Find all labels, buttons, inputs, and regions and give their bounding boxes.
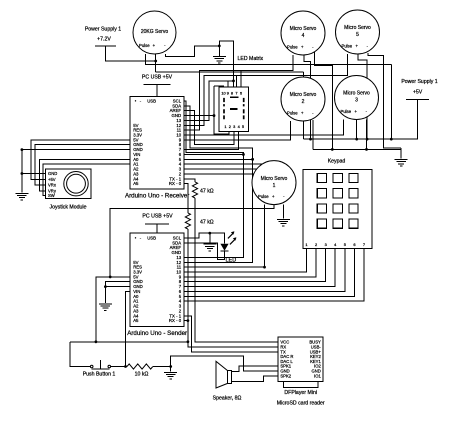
wire: servo1 - pin to ground G4 bbox=[282, 205, 284, 219]
LED matrix seven segment glyph bbox=[230, 96, 238, 98]
micro servo M6 (servo 1) bbox=[252, 161, 296, 205]
svg-text:PC USB +5V: PC USB +5V bbox=[142, 214, 173, 220]
wire: sender TX to DFPlayer TX bbox=[184, 316, 278, 352]
wire: R2 drop to DFPlayer RX bbox=[188, 229, 278, 347]
wire: sender 11 bundle line bbox=[184, 266, 264, 268]
wire: sender 5V row left to bottom bus bbox=[96, 277, 130, 342]
ground G2 below joystick wires bbox=[15, 192, 28, 194]
svg-text:4: 4 bbox=[302, 33, 305, 39]
wire: push button right to resistor R3 bbox=[111, 366, 127, 368]
svg-text:SPK2: SPK2 bbox=[280, 373, 291, 378]
svg-text:3: 3 bbox=[355, 98, 358, 104]
micro servo M4 bbox=[281, 11, 325, 55]
ground G1 near 20KG servo bbox=[218, 46, 220, 56]
svg-text:Pulse: Pulse bbox=[258, 194, 269, 199]
svg-text:VRx: VRx bbox=[48, 183, 57, 188]
wire: receiver TX-1 to resistor R1 bbox=[184, 179, 195, 182]
svg-text:USB: USB bbox=[147, 99, 156, 104]
ground G5 below-left of sender bbox=[99, 303, 112, 305]
ground G4 below servo1 bbox=[277, 218, 290, 220]
resistor R3 10k bbox=[127, 364, 153, 369]
wire: receiver 13 to LED matrix pin 9 bbox=[184, 81, 233, 121]
wire: sender GND2 row to ground G5 bbox=[105, 286, 130, 288]
svg-text:9: 9 bbox=[227, 91, 229, 96]
svg-text:3: 3 bbox=[233, 124, 235, 129]
wire: receiver RX-0 to resistor R2 bbox=[184, 184, 188, 213]
wire: right ground bus y=149.4 bbox=[313, 148, 401, 150]
svg-text:RX - 0: RX - 0 bbox=[169, 181, 182, 186]
svg-text:Pulse: Pulse bbox=[139, 43, 150, 48]
wire: servo2 - pin to ground bus bbox=[312, 120, 314, 149]
wire: receiver SDA staircase to sender row 9 bbox=[184, 106, 253, 262]
svg-text:6: 6 bbox=[240, 91, 242, 96]
svg-text:Micro Servo: Micro Servo bbox=[343, 91, 370, 97]
wire: sender RX stub to R2 drop bbox=[184, 320, 188, 322]
resistor R2 47k bbox=[185, 213, 190, 229]
wire: joystick GND to receiver GND and ground G2 bbox=[22, 173, 46, 175]
wire: R1 drop to DFPlayer VCC bbox=[195, 198, 278, 342]
wire: servo4 - pin to ground bus bbox=[315, 52, 333, 149]
wire: joystick VRx to receiver GND row bbox=[35, 145, 130, 186]
wire: joystick VRy to receiver A0 bbox=[40, 159, 131, 191]
wire: bottom bus y=341.8 bbox=[70, 341, 188, 343]
ground G7 after R3 bbox=[170, 367, 172, 372]
wire: servo4 + pin to +5V bus bbox=[304, 55, 311, 139]
wire: LED cathode to sender SDA bbox=[184, 243, 224, 260]
svg-text:Speaker, 8Ω: Speaker, 8Ω bbox=[213, 396, 242, 402]
wire: receiver 3 to servo1 circle edge bbox=[184, 168, 263, 170]
svg-text:PC USB +5V: PC USB +5V bbox=[142, 75, 173, 81]
power supply 1 +7.2V symbol bbox=[95, 45, 116, 47]
svg-text:8: 8 bbox=[231, 91, 233, 96]
svg-text:2: 2 bbox=[302, 99, 305, 105]
LED arrows bbox=[228, 232, 236, 244]
wire: joystick SW to receiver A1 bbox=[43, 164, 130, 195]
svg-text:A5: A5 bbox=[133, 318, 139, 323]
svg-text:Joystick Module: Joystick Module bbox=[50, 205, 87, 211]
svg-text:+5V: +5V bbox=[48, 177, 56, 182]
PC USB +5V receiver power symbol bbox=[144, 84, 171, 86]
svg-text:2: 2 bbox=[315, 242, 317, 247]
svg-text:LED Matrix: LED Matrix bbox=[238, 56, 264, 62]
svg-text:Micro Servo: Micro Servo bbox=[290, 26, 317, 32]
wire: receiver 4 to hidden drop behind servo1 bbox=[184, 164, 263, 180]
wire: +5V supply stem and bus y=139.1 bbox=[303, 99, 417, 139]
LED matrix U2 body bbox=[219, 87, 248, 131]
svg-text:5: 5 bbox=[356, 32, 359, 38]
DFPlayer microSD tab bbox=[284, 382, 319, 388]
wire: 20KG + pin drop and long feed y=72.1 to servo2 area bbox=[155, 53, 157, 72]
wire: +5V riser x=391.3 bbox=[390, 65, 392, 140]
arduino uno sender U6 bbox=[130, 233, 184, 327]
svg-text:7: 7 bbox=[363, 242, 365, 247]
svg-text:LED: LED bbox=[226, 258, 237, 264]
wire: receiver 2 to servo1 circle edge bbox=[184, 173, 263, 175]
svg-text:Micro Servo: Micro Servo bbox=[290, 92, 317, 98]
wire: keypad pins 1-7 to sender rows 10-4 bbox=[184, 249, 306, 272]
svg-text:1: 1 bbox=[273, 183, 276, 189]
wire: receiver GND to LED matrix pins 10 and 2 bbox=[184, 115, 214, 117]
wire: receiver SCL staircase to sender row 10 bbox=[184, 101, 243, 257]
wire: receiver 6 join SCL staircase bbox=[184, 153, 243, 155]
svg-text:Micro Servo: Micro Servo bbox=[344, 25, 371, 31]
svg-text:1: 1 bbox=[224, 124, 226, 129]
svg-text:5: 5 bbox=[242, 124, 244, 129]
wire: LED matrix pin 6 stub bbox=[240, 71, 242, 88]
svg-text:MicroSD card reader: MicroSD card reader bbox=[277, 401, 325, 407]
joystick module U4 bbox=[46, 169, 92, 198]
resistor R1 47k bbox=[192, 182, 197, 198]
PC USB +5V sender power symbol bbox=[145, 223, 169, 225]
svg-text:20KG Servo: 20KG Servo bbox=[141, 29, 168, 35]
svg-text:+7.2V: +7.2V bbox=[97, 37, 111, 43]
DFPlayer mini U7 bbox=[278, 337, 323, 382]
wire: ground node to DFPlayer GND bbox=[171, 356, 279, 371]
svg-text:Arduino Uno - Sender: Arduino Uno - Sender bbox=[127, 330, 187, 337]
wire: LED matrix pin 7 stub bbox=[235, 75, 237, 88]
svg-text:5: 5 bbox=[344, 242, 346, 247]
wire: joystick +5V to receiver 5V bbox=[31, 140, 130, 180]
svg-text:47 kΩ: 47 kΩ bbox=[200, 220, 214, 226]
wire: PS1 +7.2V stem to 20KG servo + pin bbox=[106, 46, 156, 61]
wire: 20KG pulse pin long line y=64.6 to +5V riser bbox=[146, 54, 392, 65]
wire: servo5 - pin to right ground bbox=[368, 53, 401, 148]
wire: speaker - to DFPlayer SPK2 bbox=[232, 376, 279, 382]
ground G6 at LED bbox=[209, 233, 211, 243]
wire: receiver 7 to LED matrix pin 4 bbox=[184, 131, 239, 149]
wire: servo3 + pin to +5V bus bbox=[356, 120, 358, 140]
svg-text:10 kΩ: 10 kΩ bbox=[135, 372, 149, 378]
wire: bus down to push button left terminal bbox=[70, 342, 90, 367]
wire: sender GND row to GND2 node bbox=[105, 282, 130, 287]
micro servo M2 bbox=[281, 77, 325, 121]
power supply 1 +5V symbol (right) bbox=[406, 98, 429, 100]
keypad U5 bbox=[303, 170, 372, 249]
wire: receiver 11 to servo4 pulse, long line y=70.6 bbox=[184, 55, 293, 130]
wire: receiver 10 to servo3 pulse bbox=[184, 120, 344, 136]
svg-text:Pulse: Pulse bbox=[287, 111, 298, 116]
wire: servo5 + pin to +5V bus bbox=[358, 54, 367, 139]
svg-text:A5: A5 bbox=[133, 181, 139, 186]
svg-text:Pulse: Pulse bbox=[341, 109, 352, 114]
svg-text:Push Button 1: Push Button 1 bbox=[83, 372, 116, 378]
svg-text:Keypad: Keypad bbox=[328, 159, 346, 165]
LED D1 bbox=[220, 244, 228, 251]
push button S1 bbox=[90, 365, 93, 368]
svg-text:Pulse: Pulse bbox=[342, 44, 353, 49]
svg-text:GND: GND bbox=[48, 171, 57, 176]
20KG servo M1 bbox=[133, 11, 176, 54]
wire: sender SCL to LED anode line bbox=[184, 233, 224, 244]
svg-text:IO1: IO1 bbox=[314, 373, 321, 378]
svg-text:Power Supply 1: Power Supply 1 bbox=[85, 27, 121, 33]
wire: receiver 9 to servo2 pulse bbox=[184, 121, 291, 140]
svg-text:3: 3 bbox=[325, 242, 327, 247]
svg-text:Micro Servo: Micro Servo bbox=[261, 176, 288, 182]
wire: receiver AREF to LED matrix pin 3 bbox=[184, 111, 234, 145]
svg-text:SW: SW bbox=[48, 193, 55, 198]
ground G3 right side bbox=[400, 148, 402, 159]
svg-text:Power Supply 1: Power Supply 1 bbox=[401, 79, 437, 85]
wire: servo2 + pin to +5V bus bbox=[302, 121, 304, 139]
arduino uno receiver U3 bbox=[130, 97, 184, 190]
svg-text:1: 1 bbox=[305, 242, 307, 247]
wire: servo1 + pin to long line to sender 5V bbox=[110, 205, 274, 277]
wire: receiver 5 join SDA staircase bbox=[184, 158, 253, 160]
svg-text:2: 2 bbox=[229, 124, 231, 129]
wire: sender VIN riser down to push button node bbox=[126, 291, 131, 366]
micro servo M3 bbox=[335, 76, 379, 120]
wire: receiver 12 to servo5 pulse, long line y=75.4 bbox=[184, 54, 347, 125]
svg-text:USB: USB bbox=[147, 236, 156, 241]
micro servo M5 bbox=[336, 10, 380, 54]
speaker LS1 bbox=[216, 361, 228, 388]
wire: R3 to ground node bbox=[153, 366, 171, 368]
wire: speaker + to DFPlayer SPK1 bbox=[232, 366, 279, 371]
svg-text:+5V: +5V bbox=[413, 90, 423, 96]
svg-text:RX - 0: RX - 0 bbox=[169, 318, 182, 323]
svg-text:Arduino Uno - Receiver: Arduino Uno - Receiver bbox=[125, 193, 189, 200]
wire: 20KG - pin to ground G1 and LED matrix pin 8 bbox=[165, 41, 233, 88]
wire: servo3 - pin to ground bus bbox=[366, 120, 368, 150]
svg-text:DFPlayer Mini: DFPlayer Mini bbox=[284, 390, 317, 396]
svg-text:Pulse: Pulse bbox=[287, 45, 298, 50]
svg-text:7: 7 bbox=[235, 91, 237, 96]
svg-text:6: 6 bbox=[353, 242, 355, 247]
svg-text:47 kΩ: 47 kΩ bbox=[200, 189, 214, 195]
wire: servo1 pulse down to sender 11 bundle row bbox=[264, 205, 266, 268]
